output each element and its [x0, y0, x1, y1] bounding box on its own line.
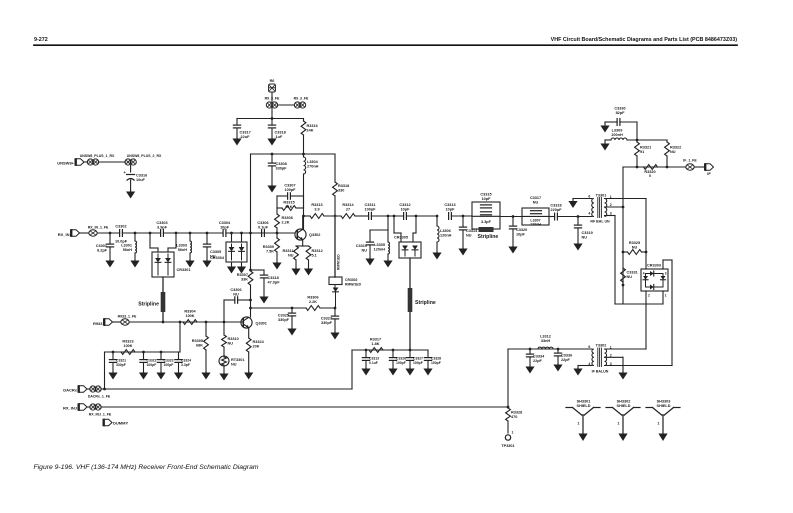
svg-text:RX_IN_1_FE: RX_IN_1_FE: [88, 226, 109, 230]
ground C3336: [557, 363, 559, 366]
ground RT3301: [223, 372, 225, 375]
wire mixer pin2 to LO line: [645, 291, 647, 349]
connector UNSW8_PLUS_2_RX: [125, 159, 131, 165]
svg-text:R3325: R3325: [629, 241, 640, 245]
wire to IF tag: [694, 166, 704, 168]
svg-text:1: 1: [657, 422, 659, 426]
svg-text:RT3301: RT3301: [231, 358, 245, 362]
svg-text:C3313: C3313: [444, 203, 455, 207]
svg-text:1: 1: [617, 422, 619, 426]
svg-text:C3321: C3321: [116, 359, 126, 363]
wire R3316 to LC rail: [303, 135, 305, 154]
svg-text:R3320: R3320: [644, 170, 655, 174]
ground C3318b: [263, 295, 265, 298]
junction C3325: [291, 307, 294, 310]
capacitor C3327: [331, 315, 338, 317]
wire Q3302 emitter: [302, 240, 304, 246]
resistor R3322: [666, 140, 668, 142]
wire: [98, 161, 125, 163]
capacitor C3307: [277, 195, 287, 197]
wire R6 to R9_3_FE: [271, 92, 273, 102]
resistor R3325: [622, 251, 625, 254]
capacitor C3313b: [365, 350, 367, 358]
svg-text:3: 3: [665, 271, 667, 275]
svg-text:3.9: 3.9: [314, 207, 319, 211]
svg-text:C3326: C3326: [396, 357, 406, 361]
svg-text:20K: 20K: [253, 344, 260, 348]
ground C3317: [236, 137, 238, 140]
ground T3302 pin2: [622, 371, 624, 374]
svg-text:SHIELD: SHIELD: [617, 404, 631, 408]
svg-text:C3312: C3312: [399, 203, 410, 207]
mixer CR3303: [641, 269, 668, 291]
ground C3308: [271, 184, 273, 187]
wire: [122, 232, 160, 234]
svg-text:L3305: L3305: [374, 243, 385, 247]
svg-text:R3309: R3309: [263, 245, 274, 249]
ground C3324: [178, 371, 180, 374]
wire mixer pin1 down: [662, 291, 664, 304]
svg-text:RX_INJ_1_FE: RX_INJ_1_FE: [89, 412, 112, 416]
svg-text:0.1uF: 0.1uF: [258, 225, 269, 229]
supply rail node: [271, 117, 274, 120]
capacitor C3303: [160, 230, 162, 237]
svg-text:10pF: 10pF: [446, 207, 456, 211]
svg-text:R6: R6: [270, 79, 275, 83]
capacitor C3319: [574, 224, 581, 226]
svg-text:NU: NU: [231, 362, 237, 366]
svg-text:100pF: 100pF: [365, 207, 377, 211]
wire mixer pin3 crossover: [662, 260, 664, 269]
svg-text:1: 1: [665, 294, 667, 298]
svg-text:UNSW8+: UNSW8+: [57, 161, 74, 166]
svg-text:R3317: R3317: [370, 338, 381, 342]
svg-text:6: 6: [588, 345, 590, 349]
capacitor C3324: [178, 352, 180, 360]
svg-text:CR3305: CR3305: [394, 236, 408, 240]
wire: [163, 232, 222, 234]
svg-text:NU: NU: [670, 150, 676, 154]
resistor R3324: [246, 338, 251, 352]
svg-text:22pF: 22pF: [533, 359, 543, 363]
svg-text:5.1: 5.1: [312, 253, 317, 257]
svg-text:Stripline: Stripline: [415, 300, 436, 306]
svg-text:C3317: C3317: [240, 131, 251, 135]
svg-text:7.5K: 7.5K: [266, 249, 274, 253]
svg-text:C3303: C3303: [156, 221, 167, 225]
svg-text:C3318: C3318: [268, 276, 279, 280]
svg-text:10pF: 10pF: [482, 197, 492, 201]
svg-text:C3319: C3319: [582, 231, 593, 235]
svg-text:4: 4: [643, 271, 645, 275]
capacitor C3325: [288, 312, 295, 314]
ground C3301: [109, 259, 111, 262]
ground C3318: [271, 137, 273, 140]
svg-text:R933_1_FE: R933_1_FE: [118, 315, 137, 319]
wire through filter box 2: [522, 215, 549, 217]
svg-text:R3304: R3304: [184, 310, 196, 314]
junction L3301: [134, 232, 137, 235]
connector R9_3_FE right: [294, 102, 300, 108]
resistor R3327 NU: [621, 268, 626, 282]
svg-text:330pF: 330pF: [116, 363, 126, 367]
wire C3330 junction: [636, 122, 638, 142]
svg-text:C3304: C3304: [219, 221, 231, 225]
junction C3320: [512, 215, 515, 218]
capacitor C3327b: [409, 350, 411, 358]
ground L3301: [134, 259, 136, 262]
wire T3302 pin1: [605, 348, 647, 350]
wire: [130, 165, 132, 172]
resistor R3317: [369, 348, 383, 353]
wire feedback vertical: [250, 154, 252, 233]
svg-text:C3302: C3302: [115, 225, 126, 229]
svg-text:C3315: C3315: [480, 192, 491, 196]
svg-text:100K: 100K: [123, 344, 132, 348]
svg-text:24K: 24K: [307, 128, 314, 132]
svg-text:C3318: C3318: [275, 131, 286, 135]
filter box C3317 L3307: [522, 208, 549, 225]
svg-text:33nH: 33nH: [541, 339, 551, 343]
wire: [549, 216, 555, 218]
stripline in filter box: [479, 227, 494, 232]
base rail R933: [129, 321, 243, 323]
svg-text:.22uF: .22uF: [240, 135, 251, 139]
junction C3305: [206, 232, 209, 235]
DACRx rail: [101, 388, 352, 390]
wire between R9_3_FE connectors: [277, 104, 294, 106]
svg-text:C3301: C3301: [96, 244, 107, 248]
svg-text:100pF: 100pF: [285, 188, 297, 192]
junction C3327: [334, 307, 337, 310]
transformer T3301: [592, 199, 594, 217]
svg-text:C3306: C3306: [230, 288, 241, 292]
junction C3314: [462, 215, 465, 218]
svg-text:RMW/1ED: RMW/1ED: [337, 254, 341, 270]
resistor R3321: [635, 142, 640, 156]
svg-text:27: 27: [346, 207, 350, 211]
wire IF rail to T3301 pin2 line: [622, 167, 624, 287]
svg-text:R3311: R3311: [283, 249, 294, 253]
svg-text:DUMMY: DUMMY: [113, 421, 128, 426]
ground C3319: [577, 242, 579, 245]
svg-text:Q3302: Q3302: [309, 233, 320, 237]
ground R3305: [205, 371, 207, 374]
transistor Q3302: [295, 229, 306, 240]
inductor L3301: [135, 241, 137, 253]
svg-text:DACRx_1_FE: DACRx_1_FE: [88, 394, 111, 398]
resistor R3307: [248, 271, 253, 285]
diode CR3302: [334, 285, 336, 288]
svg-text:R3328: R3328: [511, 411, 522, 415]
mixer bottom rail: [615, 303, 663, 305]
svg-text:56nH: 56nH: [123, 248, 133, 252]
ground C3327: [334, 331, 336, 334]
svg-text:NU: NU: [233, 292, 239, 296]
ground C3313b: [365, 367, 367, 370]
wire T3301 pin3: [605, 215, 616, 217]
wire T3302 pin3: [605, 365, 673, 367]
svg-text:VHF Circuit Board/Schematic Di: VHF Circuit Board/Schematic Diagrams and…: [551, 37, 738, 43]
resistor R3312: [306, 246, 311, 260]
LC tank rail: [251, 153, 336, 155]
limiter CR3304 branch: [230, 232, 233, 235]
svg-text:2.2K: 2.2K: [309, 300, 317, 304]
capacitor C3320: [509, 225, 516, 227]
capacitor C3330: [605, 121, 617, 123]
ground C3316: [130, 190, 132, 193]
capacitor C3328: [427, 350, 429, 358]
capacitor C3304: [222, 230, 224, 237]
svg-text:330: 330: [338, 188, 344, 192]
svg-text:100pF: 100pF: [147, 363, 157, 367]
svg-text:51K: 51K: [286, 205, 293, 209]
resistor R3314: [341, 214, 355, 219]
svg-text:10pF: 10pF: [516, 232, 526, 236]
svg-text:NU: NU: [627, 275, 633, 279]
svg-text:NU: NU: [582, 235, 588, 239]
svg-text:R3321: R3321: [640, 146, 651, 150]
svg-text:C3324: C3324: [181, 359, 191, 363]
svg-text:C3305: C3305: [210, 250, 221, 254]
capacitor C3312: [403, 213, 405, 220]
wire T3301 pin2: [605, 206, 624, 208]
junction L3303: [189, 232, 192, 235]
svg-text:R3322: R3322: [670, 146, 681, 150]
svg-text:3.9pF: 3.9pF: [157, 225, 168, 229]
svg-text:C3313: C3313: [369, 357, 379, 361]
limiter CR3301 branch: [149, 232, 152, 235]
svg-text:UNSW8_PLUS_1_RX: UNSW8_PLUS_1_RX: [80, 154, 115, 158]
svg-text:CR3302: CR3302: [345, 278, 358, 282]
svg-text:NU: NU: [466, 233, 472, 237]
svg-text:470: 470: [511, 415, 517, 419]
inductor L3306: [437, 226, 439, 242]
svg-text:R3324: R3324: [253, 340, 265, 344]
resistor R3311: [294, 246, 299, 260]
svg-text:NU: NU: [533, 200, 539, 204]
ground L3305: [387, 259, 389, 262]
svg-text:C3330: C3330: [614, 107, 625, 111]
svg-text:R3310: R3310: [228, 337, 239, 341]
ground R3312: [308, 267, 310, 270]
wire T3302 pin2 to ground: [605, 356, 624, 358]
wire Q3301 emitter: [248, 328, 250, 338]
svg-text:10pF: 10pF: [220, 225, 230, 229]
svg-text:3.3pF: 3.3pF: [181, 363, 190, 367]
svg-text:C3314: C3314: [466, 229, 478, 233]
connector RX_INJ_1_FE: [90, 404, 96, 410]
diode pair CR3305: [399, 242, 421, 258]
svg-text:C3306: C3306: [257, 221, 268, 225]
ground L3309: [604, 140, 606, 144]
transistor Q3301: [241, 317, 252, 328]
svg-text:C3323: C3323: [164, 359, 174, 363]
capacitor C3314: [459, 226, 466, 228]
svg-text:C3316: C3316: [136, 174, 147, 178]
wire mixer left leg: [645, 199, 647, 270]
svg-text:120nH: 120nH: [530, 223, 541, 227]
svg-text:6: 6: [588, 194, 590, 198]
pin diode CR3302 chain: [334, 216, 336, 277]
svg-text:Stripline: Stripline: [138, 302, 159, 308]
resistor R3323: [121, 350, 135, 355]
svg-text:9-272: 9-272: [34, 37, 48, 43]
svg-text:SHIELD: SHIELD: [577, 404, 591, 408]
capacitor C3313: [448, 213, 450, 220]
svg-text:10uF: 10uF: [136, 178, 146, 182]
svg-text:C3331: C3331: [627, 271, 638, 275]
ground C3310: [369, 257, 371, 260]
wire T3301 pin1 to mixer: [605, 198, 647, 200]
wire LO rail: [508, 348, 592, 350]
svg-text:L3306: L3306: [440, 229, 451, 233]
resistor R3309: [276, 233, 278, 238]
svg-text:330pF: 330pF: [321, 321, 333, 325]
inductor L3304: [303, 154, 305, 157]
diode pair CR3304: [226, 242, 247, 262]
svg-text:R3318: R3318: [338, 184, 349, 188]
svg-text:56nH: 56nH: [178, 248, 188, 252]
svg-text:100K: 100K: [185, 314, 194, 318]
wire CR3301 to stripline: [162, 277, 164, 292]
svg-text:CR3301: CR3301: [177, 268, 191, 272]
node IF: [705, 164, 714, 170]
connector R6: [269, 84, 276, 92]
svg-text:Figure 9-196. VHF (136-174 MH: Figure 9-196. VHF (136-174 MHz) Receiver…: [34, 464, 259, 471]
svg-text:100pF: 100pF: [396, 361, 406, 365]
transformer T3302: [592, 349, 594, 366]
svg-text:1: 1: [577, 422, 579, 426]
ground L3306: [436, 251, 438, 254]
svg-text:C3327: C3327: [413, 357, 423, 361]
resistor R3316: [303, 119, 305, 122]
wire: [97, 232, 119, 234]
header rule: [34, 44, 737, 46]
svg-text:R3316: R3316: [307, 124, 318, 128]
inductor L3305: [387, 230, 389, 242]
svg-text:DACRx: DACRx: [63, 388, 78, 393]
svg-text:R3307: R3307: [237, 273, 248, 277]
wire T3302 pin4: [578, 365, 592, 367]
ground C3325: [291, 327, 293, 330]
svg-text:120nH: 120nH: [374, 247, 386, 251]
svg-text:L3303: L3303: [176, 244, 187, 248]
capacitor C3317: [531, 210, 542, 212]
wire C3306 to base rail: [223, 300, 225, 322]
inductor L3303: [190, 241, 192, 253]
svg-text:C3322: C3322: [147, 359, 157, 363]
svg-text:C3307: C3307: [284, 184, 295, 188]
inductor L3312: [538, 347, 553, 349]
ground C3323: [160, 371, 162, 374]
svg-text:2.2K: 2.2K: [282, 220, 290, 224]
IF output rail: [623, 166, 686, 168]
svg-text:T3302: T3302: [596, 344, 607, 348]
inductor L3309: [605, 139, 611, 141]
connector DACRx_1_FE: [90, 386, 96, 392]
ground C3334: [529, 365, 531, 368]
wire RX_INJ vertical: [507, 349, 509, 407]
connector R9_3_FE left: [266, 102, 272, 108]
resistor R3320: [644, 165, 658, 170]
svg-text:C3308: C3308: [276, 162, 287, 166]
ground T3301 pin6: [573, 198, 592, 200]
svg-text:330pF: 330pF: [276, 166, 288, 170]
ground C3330: [604, 122, 606, 126]
svg-text:R933: R933: [93, 321, 103, 326]
stripline center: [408, 288, 413, 312]
capacitor C3318b 47pF branch: [251, 269, 265, 271]
resistor R3315: [276, 196, 278, 208]
svg-text:120nH: 120nH: [440, 233, 452, 237]
svg-text:Q3301: Q3301: [256, 322, 267, 326]
svg-text:C3320: C3320: [516, 228, 527, 232]
junction C3301: [109, 232, 112, 235]
svg-text:RX_INJ: RX_INJ: [63, 406, 77, 411]
resistor R3318: [334, 154, 336, 182]
stripline left: [161, 292, 166, 312]
resistor R3305: [205, 322, 207, 336]
svg-text:10pF: 10pF: [401, 207, 411, 211]
resistor R3308: [276, 208, 278, 214]
svg-text:330pF: 330pF: [278, 318, 290, 322]
capacitor C3308: [271, 154, 273, 163]
svg-text:R9_3_FE: R9_3_FE: [294, 97, 309, 101]
filter box C3315 C3316: [472, 202, 500, 229]
pin diode CR3305 branch: [393, 215, 396, 218]
svg-text:R3306: R3306: [307, 296, 318, 300]
ground C3328: [427, 367, 429, 370]
decoupling rail: [105, 351, 181, 353]
svg-text:SH3302: SH3302: [617, 400, 631, 404]
capacitor C3336: [557, 349, 559, 353]
ground C3321: [112, 371, 114, 374]
svg-text:100pF: 100pF: [164, 363, 174, 367]
svg-text:L3312: L3312: [540, 335, 551, 339]
ground C3322: [143, 371, 145, 374]
capacitor C3301: [106, 243, 113, 245]
mixer bias rail: [352, 349, 428, 351]
svg-text:T3301: T3301: [596, 193, 607, 197]
capacitor C3310: [369, 230, 371, 242]
connector RX_IN_1_FE: [89, 230, 97, 236]
svg-text:R3314: R3314: [342, 203, 354, 207]
svg-text:NU: NU: [288, 253, 294, 257]
svg-text:C3327: C3327: [321, 317, 332, 321]
svg-text:82pF: 82pF: [616, 111, 626, 115]
ground C3305: [206, 259, 208, 262]
svg-text:NU: NU: [228, 341, 234, 345]
svg-text:SH3303: SH3303: [657, 400, 671, 404]
capacitor C3311: [368, 213, 370, 220]
ground C3320: [512, 245, 514, 248]
svg-text:C3336: C3336: [561, 354, 572, 358]
capacitor C3321: [112, 352, 114, 360]
capacitor C3315: [481, 204, 492, 206]
thermistor RT3301: [219, 356, 229, 366]
wire DACRx up to decoupling rail: [104, 352, 106, 389]
resistor R3304: [183, 320, 197, 325]
svg-text:68K: 68K: [196, 343, 203, 347]
svg-text:R3323: R3323: [122, 340, 133, 344]
svg-text:33K: 33K: [241, 277, 248, 281]
ground C3327b: [409, 367, 411, 370]
svg-text:R9_3_FE: R9_3_FE: [265, 97, 280, 101]
svg-text:C3334: C3334: [533, 355, 545, 359]
ground L3303: [189, 259, 191, 262]
svg-text:3.3pF: 3.3pF: [481, 220, 492, 224]
